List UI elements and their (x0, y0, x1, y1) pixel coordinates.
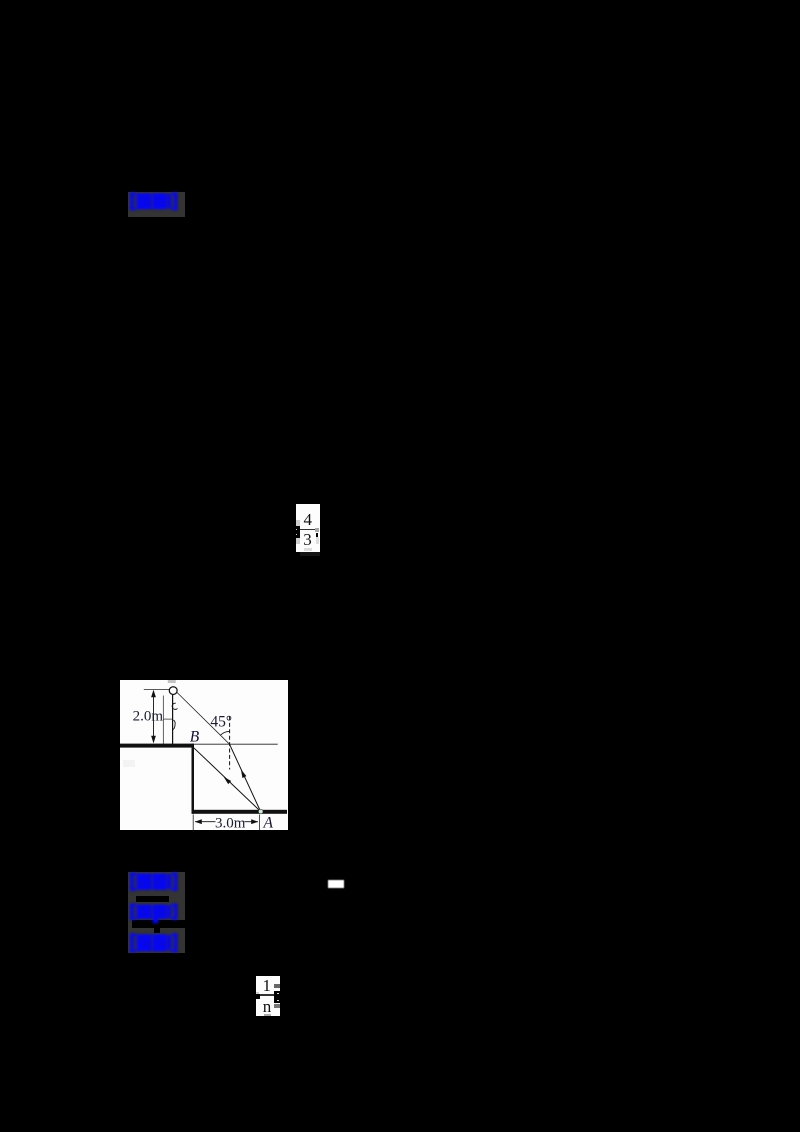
3.0m dimension arrow (195, 821, 216, 823)
eye ray segment 1 (177, 693, 229, 745)
hand mark (173, 720, 175, 730)
angle arc (220, 731, 230, 735)
eye ray segment 2 underwater (230, 744, 261, 811)
label row 1 grey bg (128, 872, 185, 905)
label row 3 grey bg (128, 928, 185, 953)
physics figure white box (120, 680, 288, 830)
thin vertical line (162, 696, 164, 745)
black equals overlap at left edge of 4/3 box (296, 526, 300, 538)
blue label fenxi (129, 932, 181, 954)
svg-text:B: B (190, 728, 200, 745)
label row 2 grey bg (128, 902, 185, 920)
body (172, 695, 174, 745)
arrowhead on underwater ray (241, 769, 247, 778)
top blue heading label text (129, 191, 181, 212)
black dot right of 4/3 box (316, 533, 318, 537)
bottom floor thick (192, 810, 287, 814)
white dash (328, 880, 344, 888)
svg-text:A: A (263, 815, 274, 831)
ground thick (120, 744, 194, 748)
1/n fraction white box (256, 976, 281, 1016)
svg-text:3.0m: 3.0m (215, 815, 246, 830)
blue label zhuanti (129, 901, 181, 925)
faint smudge left-middle (123, 760, 135, 767)
arrowhead on B-A line (224, 777, 232, 784)
black notch left of 1/n (256, 994, 260, 999)
bottom dim ticks (192, 815, 194, 831)
B to A line (194, 748, 261, 812)
2.0m dimension arrow (153, 691, 155, 742)
top tick line (144, 689, 170, 691)
waist tick (163, 718, 172, 720)
grey smudge top (168, 680, 176, 683)
head circle (169, 687, 177, 695)
dashed normal line (229, 717, 231, 770)
green dot at A (258, 809, 263, 814)
top blue heading label background (128, 192, 185, 217)
4/3 fraction white box (296, 504, 320, 553)
right side artifacts of 1/n (274, 984, 280, 988)
svg-text:2.0m: 2.0m (133, 708, 164, 724)
svg-text:45°: 45° (210, 713, 232, 730)
cliff vertical thick (192, 744, 195, 814)
blue label kaodian (129, 871, 181, 892)
arm hook (172, 703, 177, 709)
water surface line (120, 743, 278, 745)
